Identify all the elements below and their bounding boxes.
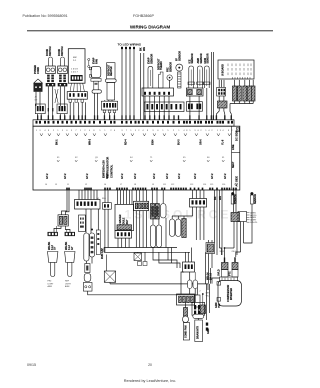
svg-text:INVERTER: INVERTER [230,288,233,300]
damper connector comb [71,75,83,81]
wires B0 to door plugs [54,226,61,232]
svg-text:SWITCH: SWITCH [49,46,52,56]
wire bus lower center [104,247,177,249]
condenser fan motor body [183,323,189,341]
svg-text:ASM: ASM [65,285,70,288]
title rule [27,30,273,32]
svg-text:LIGHT: LIGHT [48,283,55,285]
svg-text:LINE: LINE [232,144,235,150]
auger hatch bar [182,219,186,238]
lower pill small [183,316,189,323]
J24 wires from board [192,190,194,199]
svg-text:WH-2: WH-2 [89,138,92,145]
junction small squares [138,262,142,266]
junction block B2 [206,243,215,254]
harness strip connector J5 [144,102,184,112]
svg-text:20: 20 [148,363,152,367]
capacitor C1 [84,233,89,261]
power cord connector [35,104,45,114]
junction box B0 [58,215,68,226]
svg-text:GY-2: GY-2 [106,173,109,179]
power cord wires [35,92,37,106]
relay hatch box [231,213,240,222]
inverter filter block [90,233,95,257]
svg-text:YEL: YEL [218,303,221,308]
J3 wires to board [144,96,146,120]
cluster internal wires [197,309,199,315]
bus drop wires [152,219,154,225]
J22 wires to bus [135,211,137,248]
svg-text:GY-2: GY-2 [194,173,197,179]
user interface board A2 [218,60,254,79]
refrigerator light plug P2 [65,232,75,236]
svg-text:1 3 5 8: 1 3 5 8 [71,69,78,71]
heater ground block [200,305,205,314]
svg-text:GY-2: GY-2 [86,173,89,179]
lower left connector J26 [177,294,195,305]
switch S1 wires [47,87,49,120]
ice maker lower hatch [117,225,132,230]
compressor ground wire [212,278,220,284]
evaporator thermistor RT7 [231,192,234,195]
svg-text:BU-3: BU-3 [178,139,181,145]
svg-text:GY-2: GY-2 [224,173,227,179]
starter pill [84,274,91,282]
crankcase heater E2 [196,284,198,295]
lower junction box B1 [134,253,142,261]
UI connector group 2 [233,86,237,101]
junction node dot [224,247,226,249]
fan motor wires [94,93,96,120]
ambient thermistor RT5 [198,66,203,88]
main run wire to lower cluster [109,282,111,284]
auger motor pills [170,219,175,237]
defrost heater E1 [107,63,115,79]
fill tube connector [103,203,112,210]
svg-text:Publication No: 5995568091: Publication No: 5995568091 [23,14,68,18]
defrost thermostat S3 [159,72,164,88]
svg-text:TO LED WIRING: TO LED WIRING [118,43,142,47]
refrigerator door switch S2 [60,57,64,66]
middle label block [79,215,86,232]
wires J2 to lower connector [78,190,80,200]
AC feed wires right of center [214,190,216,243]
evaporator fan motor M1 [91,67,101,78]
interface wires [210,52,212,120]
RT6 wire to strip [206,88,208,120]
aux narrow element [97,209,99,230]
LED wires [121,49,123,120]
svg-text:GY-2: GY-2 [134,173,137,179]
starter module box [85,264,90,273]
svg-text:LIGHT: LIGHT [65,283,72,285]
ice maker thermistor RT4 [189,66,194,88]
svg-text:SENSOR: SENSOR [169,62,172,72]
fan motor neck [94,81,98,90]
board pin arrows [40,133,43,136]
switch S1 wire terminals [48,115,49,120]
svg-text:PTC: PTC [228,271,231,276]
auxiliary wires [140,53,142,120]
condenser fan connector J25 [183,262,195,272]
damper fan-out wires [70,83,72,91]
freezer light plug P1 [48,232,58,236]
svg-text:09/15: 09/15 [27,363,36,367]
wire capacitor to starter [85,261,87,264]
compressor mount squares [217,282,221,286]
ground node [202,293,204,295]
defrost relay wires [233,190,235,213]
UI group 3b bar [251,86,255,101]
compressor relay K1 [238,212,247,222]
J22 wires from board [135,190,137,201]
svg-text:BK-16: BK-16 [210,272,213,280]
LED wiring terminals [121,47,123,49]
fresh food thermistor RT3 [176,64,183,71]
svg-text:BK-1: BK-1 [56,139,59,145]
relay output wires [233,222,235,249]
compressor terminal strip [220,277,238,281]
svg-text:GY-2: GY-2 [153,173,156,179]
svg-text:SENSOR: SENSOR [150,54,153,64]
dual water valve solenoid 1 [161,204,167,219]
svg-text:SENSOR: SENSOR [254,194,257,204]
defrost heater connector [101,101,117,110]
UI connector group 3 [243,86,247,101]
drain heater body [195,320,203,342]
wires J20 to capacitor [85,209,87,233]
svg-text:CM-1: CM-1 [232,251,236,253]
condenser fan feed wires [185,252,187,262]
svg-text:SWITCH: SWITCH [61,46,64,56]
svg-text:FGHB2866P: FGHB2866P [133,14,154,18]
damper jumper link [88,58,90,60]
UI bus wires [234,101,236,104]
ice maker lower connector J23 [115,231,132,239]
svg-text:ASM: ASM [48,285,53,288]
svg-text:GY-2: GY-2 [46,173,49,179]
svg-text:DC SIDE: DC SIDE [235,130,239,141]
svg-text:SENSOR: SENSOR [178,51,181,61]
side terminal marks [206,323,208,326]
fill tube wires [104,190,106,203]
svg-text:2 4 6 7: 2 4 6 7 [71,71,78,73]
svg-text:UI BOARD: UI BOARD [222,64,225,76]
water valve wires [151,190,153,204]
svg-text:GY: GY [71,246,74,250]
starter rail wire [88,291,198,295]
long run wires to bottom cluster [205,252,207,268]
svg-text:DRAIN HTR: DRAIN HTR [197,326,200,339]
svg-text:2: 2 [200,291,201,293]
sensor harness connector J4 [186,88,203,96]
svg-text:COND FAN: COND FAN [185,325,188,338]
sensor harness connector J3 [142,88,174,96]
svg-text:HEATER: HEATER [110,66,113,76]
board fuse mark [236,128,239,132]
svg-text:SENSOR: SENSOR [235,194,238,204]
svg-text:SENSOR: SENSOR [200,53,203,63]
defrost heater wires [104,100,106,101]
condenser feed elbows [153,252,177,268]
svg-text:GY-2: GY-2 [64,173,67,179]
humidity sensor RT6 [204,66,209,88]
compressor M2 [218,281,242,307]
J23 wires down [117,238,119,247]
board AC DC divider [231,126,233,190]
J4 lower connector [186,102,202,112]
UI bottom pin dashes [232,77,234,79]
svg-text:EMF2500+130: EMF2500+130 [102,160,106,178]
filter node dot [91,229,93,231]
damper wires to board [69,102,71,120]
right side long wires [206,284,208,320]
ice maker module A4 [115,204,134,230]
run capacitor stack 2 [234,258,235,263]
wires J1 to junction box [62,189,68,215]
horizontal pill [193,314,204,318]
condenser thermistor RT8 [250,192,253,195]
svg-text:THERM: THERM [160,61,163,70]
svg-text:NEUT: NEUT [232,161,235,168]
svg-text:5304: 5304 [152,139,155,145]
svg-text:OR-6: OR-6 [200,139,203,145]
svg-text:Rendered by LeadVenture, Inc.: Rendered by LeadVenture, Inc. [124,379,177,383]
svg-text:WH: WH [143,47,146,51]
ice maker wires from board [117,190,119,204]
hatch bar lower [184,308,188,317]
board bottom pins [66,188,68,190]
J4 wires to board [189,96,191,120]
svg-text:MIC: MIC [73,57,77,59]
freezer thermistor RT2 [167,75,172,80]
defrost heater body [107,82,115,100]
svg-text:SENSOR: SENSOR [191,53,194,63]
fan motor lower collar [92,90,101,93]
freezer door switch S1 [48,57,52,66]
crossing wires between plugs [55,89,58,103]
overload protector stack 1 [224,258,225,263]
lower mid box B3 [192,302,205,315]
svg-text:YL-8: YL-8 [222,139,225,145]
J5 wire terminals [144,115,145,120]
RT3 ladder lead [178,72,181,88]
solenoid pills lower pair [151,225,156,248]
svg-text:FAN: FAN [95,59,98,64]
service connector J21 [104,271,115,282]
water valve coil block [151,204,155,220]
svg-text:IM: IM [97,198,100,200]
condenser fan pills [188,280,193,289]
evaporator thermistor RT1 [148,66,153,88]
starter lower box [83,283,92,292]
svg-text:GY-2: GY-2 [178,173,181,179]
svg-text:RUN CAP: RUN CAP [101,248,104,259]
damper control A1 [68,49,85,83]
B2 wires down [208,254,210,284]
svg-text:GRN-YEL: GRN-YEL [250,222,258,224]
svg-text:GRN: GRN [207,328,210,334]
svg-text:YEL: YEL [206,295,209,297]
switch S2 wires [59,87,61,107]
svg-text:GY: GY [54,246,57,250]
main control board A3 [33,126,240,190]
svg-text:CONTROL: CONTROL [109,164,113,178]
svg-text:WIRING DIAGRAM: WIRING DIAGRAM [130,25,170,30]
fan motor collar [91,79,101,82]
svg-text:GY-2: GY-2 [166,173,169,179]
svg-text:GY-2: GY-2 [121,173,124,179]
svg-text:CORD: CORD [37,67,40,74]
ice maker connector J22 [134,201,149,210]
lower harness connector J20 [75,200,101,210]
svg-text:GY-2: GY-2 [211,173,214,179]
switch S2 connector [57,104,67,114]
damper harness connector J1 [67,92,87,100]
dispenser connector J24 [190,199,207,208]
UI connector group 1 [217,87,226,96]
defrost heater collar [105,79,116,83]
compressor feed wires [224,248,226,263]
svg-text:OVLD: OVLD [218,269,221,276]
relay K1 labels [247,212,250,214]
power cord plug [34,79,43,83]
svg-text:RD-4: RD-4 [125,139,128,145]
svg-text:SENSOR: SENSOR [207,53,210,63]
UI jumper flare wires [216,108,219,120]
main board edge connector strip [33,120,234,126]
UI jumper block [218,101,228,108]
J24 wires down [192,207,194,216]
